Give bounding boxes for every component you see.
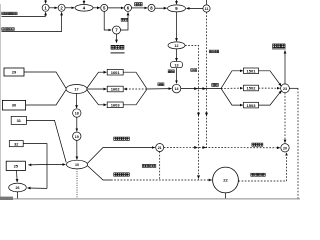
- node 22: [213, 167, 239, 193]
- input label B (secondary crush): [2, 28, 62, 32]
- svg-text:30: 30: [12, 103, 17, 108]
- node 20: [281, 144, 289, 152]
- box 32: [9, 141, 23, 147]
- svg-text:11: 11: [205, 7, 209, 11]
- wire fan to 1501: [221, 71, 243, 89]
- svg-text:20: 20: [283, 146, 287, 150]
- box 1603: [107, 102, 123, 108]
- node 5: [101, 4, 108, 11]
- svg-text:1603: 1603: [111, 103, 121, 108]
- svg-text:32: 32: [14, 142, 18, 146]
- wire 23 dashed down to 20: [284, 93, 286, 143]
- wire middle flue gas 10 to 22: [88, 166, 212, 180]
- wire 23 up to industrial water: [284, 51, 286, 84]
- wire 10 dotted down to edge: [76, 169, 78, 199]
- svg-text:1503: 1503: [247, 103, 257, 108]
- wire liquid 14 to fan point: [181, 87, 221, 90]
- wire 22 right then up into 20: [238, 153, 286, 181]
- node 9 (ellipse): [168, 5, 186, 12]
- label liquid: [212, 83, 219, 86]
- wire 5 down to 7: [104, 11, 111, 30]
- node 23: [281, 84, 290, 93]
- label upper flue gas: [114, 137, 130, 140]
- wire 1603 out: [123, 90, 147, 105]
- box 1502: [244, 85, 259, 91]
- svg-text:5: 5: [103, 5, 106, 10]
- wire 29 to 17: [24, 72, 66, 88]
- node 12 (ellipse): [168, 42, 185, 49]
- svg-text:1502: 1502: [247, 86, 257, 91]
- wire fan to 1502: [221, 87, 243, 89]
- svg-text:22: 22: [223, 178, 228, 183]
- wire junction left into 25: [28, 164, 47, 166]
- wire 1503 to 23: [259, 91, 282, 105]
- wire 6 to 8: [132, 7, 148, 9]
- wire label B riser into 2: [61, 12, 63, 31]
- wire 26 down to edge: [17, 192, 19, 199]
- wire 32 right and down: [23, 144, 47, 189]
- label condensate water top: [209, 50, 219, 53]
- wire 17 down to 18: [76, 94, 78, 109]
- node 26 (ellipse): [9, 183, 27, 192]
- svg-text:19: 19: [75, 135, 79, 139]
- svg-text:1601: 1601: [111, 70, 121, 75]
- wire 8 to 9: [155, 7, 167, 9]
- node 11: [203, 5, 210, 12]
- svg-text:4: 4: [83, 5, 86, 10]
- node 13 (rounded box): [171, 62, 183, 68]
- node 2: [58, 4, 65, 11]
- label residue above 7: [121, 18, 128, 21]
- wire upper flue gas 10 to 21: [88, 148, 155, 164]
- svg-text:12: 12: [175, 44, 179, 48]
- svg-text:1602: 1602: [111, 87, 121, 92]
- svg-text:25: 25: [14, 164, 19, 169]
- node 18: [73, 109, 81, 117]
- node 7: [113, 26, 121, 34]
- wire top stub into node 1: [45, 0, 47, 3]
- wire 30 to 17: [26, 90, 66, 105]
- box 1601: [107, 69, 123, 75]
- label non-condensable gas right: [251, 173, 266, 176]
- node 1: [42, 4, 49, 11]
- wire 21 dashed to 20: [164, 146, 280, 149]
- wire 17 to 1602: [87, 88, 106, 90]
- wire condensate dashed from 11 down: [205, 12, 208, 147]
- svg-text:1501: 1501: [247, 69, 257, 74]
- node 21: [156, 144, 164, 152]
- wire 22 down to edge: [225, 193, 227, 199]
- furnace ellipse 17: [66, 85, 87, 94]
- svg-text:29: 29: [12, 70, 17, 75]
- wire 1502 to 23: [259, 87, 280, 89]
- wire 4 to 5: [93, 7, 100, 9]
- wire 1601 out: [123, 72, 147, 88]
- svg-text:13: 13: [175, 63, 179, 67]
- box 1602: [107, 86, 123, 92]
- svg-text:26: 26: [16, 186, 20, 190]
- wire 17 to 1603: [87, 90, 106, 105]
- svg-text:9: 9: [175, 6, 178, 11]
- label solids: [158, 83, 164, 86]
- svg-text:17: 17: [74, 88, 78, 92]
- box 1501: [244, 68, 259, 74]
- node 19: [73, 132, 81, 140]
- label tie-ci on wire 6-8: [135, 2, 143, 5]
- svg-text:10: 10: [75, 163, 79, 167]
- label middle flue gas: [114, 173, 130, 176]
- wire 9 down to 12: [176, 12, 178, 41]
- wire label A riser into 1: [45, 12, 47, 16]
- wire 1501 to 23: [259, 71, 282, 86]
- box 29: [4, 68, 24, 76]
- wire 17 to 1601: [87, 72, 106, 88]
- node 8: [148, 4, 155, 11]
- input label A (scrap feed): [2, 12, 46, 16]
- node 6: [125, 4, 132, 11]
- wire solids junction to 14: [147, 88, 172, 90]
- wire top stub into node 4: [83, 0, 85, 4]
- node 14: [172, 84, 181, 93]
- wire 7 down to metal-Al label: [116, 34, 118, 43]
- svg-text:21: 21: [158, 146, 162, 150]
- wire 18 down to 19: [76, 117, 78, 131]
- output label metal aluminium: [111, 45, 125, 52]
- box 25: [6, 161, 25, 170]
- wire 11 to 9: [187, 7, 203, 9]
- svg-text:31: 31: [17, 118, 22, 123]
- wire junction bottom into 26: [28, 187, 47, 189]
- label condensate water right: [252, 143, 263, 146]
- svg-text:7: 7: [115, 28, 118, 33]
- border left: [0, 4, 1, 200]
- wire 23 right then dashed down to edge: [289, 88, 298, 198]
- wire top stub into node 9: [176, 0, 178, 4]
- wire 13 down to 14: [176, 68, 178, 84]
- box 31: [11, 116, 26, 124]
- wire 25 down to 26: [16, 171, 19, 183]
- svg-text:14: 14: [175, 87, 179, 91]
- wire 7 up to 6: [121, 13, 129, 31]
- svg-text:1: 1: [44, 5, 47, 10]
- label industrial water: [272, 44, 286, 49]
- wire 31 to 10: [26, 120, 66, 162]
- svg-text:8: 8: [150, 5, 153, 10]
- wire junction right into 10: [47, 164, 65, 166]
- box 1503: [244, 102, 259, 108]
- svg-text:23: 23: [283, 87, 287, 91]
- box 30: [2, 100, 25, 110]
- wire 1 to 2: [49, 7, 57, 9]
- node 4 (ellipse): [75, 5, 93, 12]
- svg-text:18: 18: [75, 112, 79, 116]
- wire 12 down to 13: [176, 49, 178, 61]
- wire 21 dashed down: [159, 152, 161, 180]
- wire 1602 out: [124, 88, 147, 90]
- wire 5 to 6: [108, 7, 124, 9]
- label dust left of wire 13-14: [168, 70, 174, 73]
- svg-text:6: 6: [127, 5, 130, 10]
- wire 19 down to 10: [76, 140, 78, 159]
- svg-text:2: 2: [60, 5, 63, 10]
- wire 2 to 4: [65, 7, 74, 9]
- wire fan to 1503: [221, 88, 243, 105]
- wire gas dashed from 12 right then down: [185, 45, 200, 179]
- node 10 (ellipse): [67, 160, 88, 169]
- border bottom: [0, 197, 300, 200]
- label gas: [191, 69, 197, 72]
- wire top stub into node 11: [206, 0, 208, 4]
- label non-condensable gas left: [142, 164, 156, 167]
